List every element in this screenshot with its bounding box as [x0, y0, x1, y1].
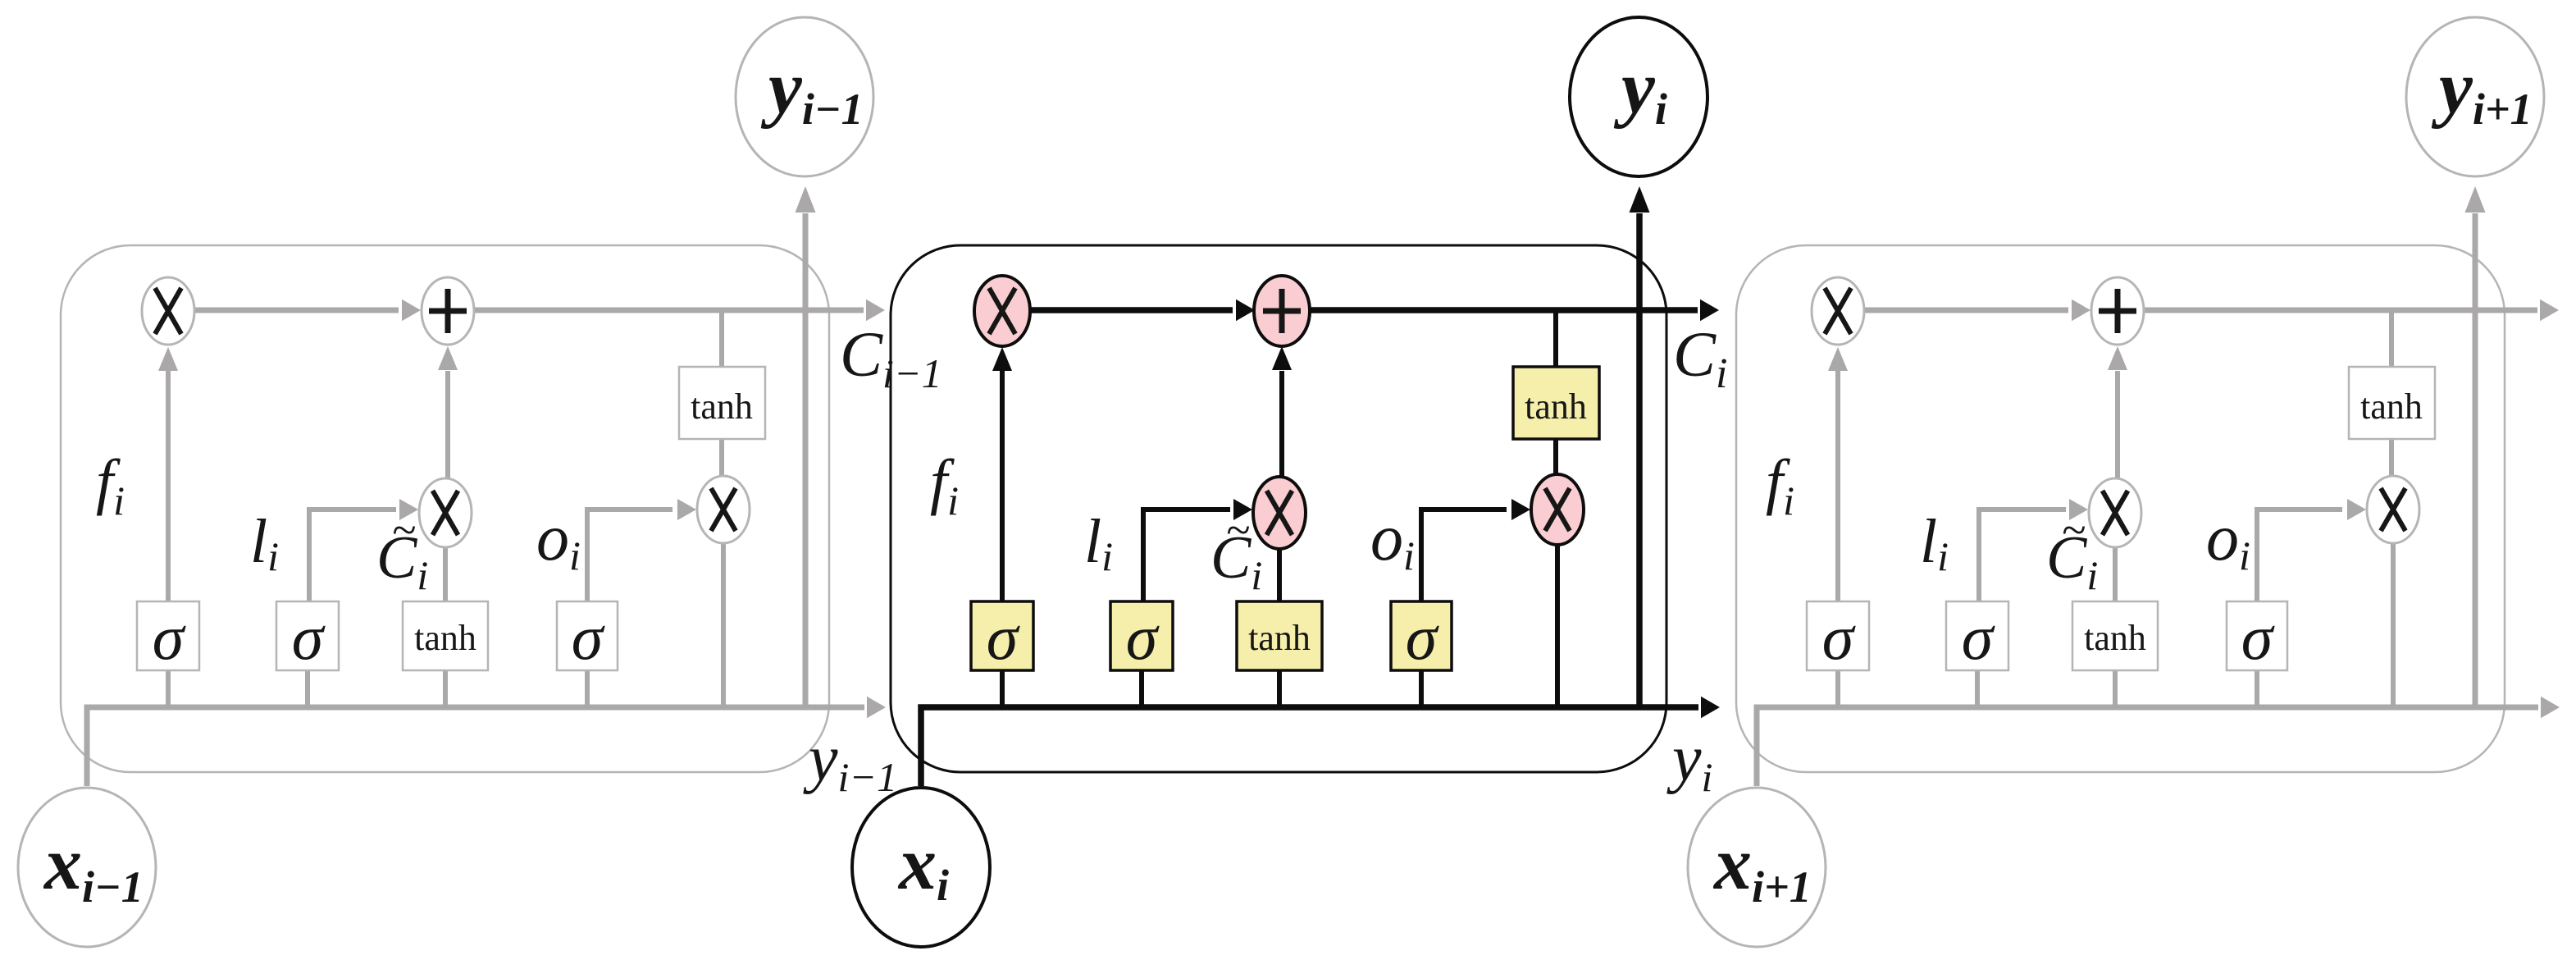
- svg-text:σ: σ: [1126, 601, 1160, 673]
- svg-text:σ: σ: [1406, 601, 1439, 673]
- svg-text:~: ~: [1226, 505, 1250, 555]
- svg-text:σ: σ: [1822, 601, 1856, 673]
- svg-text:σ: σ: [572, 601, 605, 673]
- svg-text:tanh: tanh: [1525, 386, 1587, 427]
- svg-text:tanh: tanh: [1248, 618, 1311, 658]
- svg-text:~: ~: [392, 505, 416, 555]
- svg-text:tanh: tanh: [414, 618, 476, 658]
- svg-text:tanh: tanh: [691, 386, 753, 427]
- svg-text:σ: σ: [153, 601, 186, 673]
- svg-text:tanh: tanh: [2084, 618, 2146, 658]
- svg-text:σ: σ: [1962, 601, 1995, 673]
- svg-text:tanh: tanh: [2360, 386, 2423, 427]
- svg-text:σ: σ: [987, 601, 1020, 673]
- svg-text:~: ~: [2062, 505, 2086, 555]
- svg-text:σ: σ: [2241, 601, 2275, 673]
- svg-text:σ: σ: [292, 601, 326, 673]
